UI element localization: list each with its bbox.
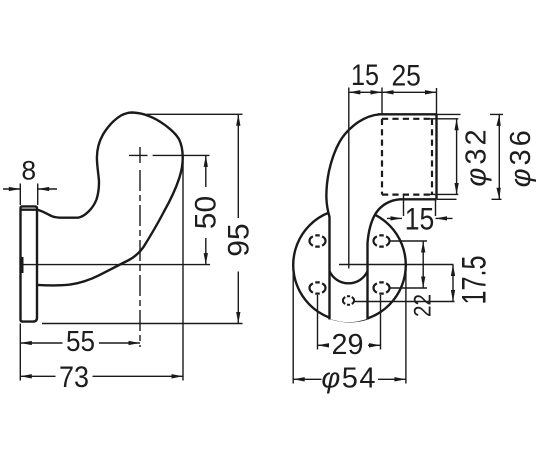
dim phi36 line + arrows xyxy=(498,114,500,199)
plate slot mark xyxy=(20,257,23,273)
dims 15 25 top: extension lines xyxy=(382,88,437,115)
wall plate xyxy=(21,206,38,321)
pipe right edge xyxy=(435,114,437,199)
screw hole bottom-center xyxy=(343,296,354,304)
dim phi36 extension lines xyxy=(437,114,504,199)
dim 95 bottom extension line xyxy=(42,323,243,325)
dim phi32 extension lines xyxy=(430,119,459,195)
hidden bore dashed box xyxy=(382,119,432,195)
dim 95 line + arrows xyxy=(237,114,239,323)
svg-text:φ36: φ36 xyxy=(505,127,537,187)
svg-text:29: 29 xyxy=(332,329,364,361)
flange circle xyxy=(293,209,406,322)
arm + pipe elbow (white filled to hide circle behind) xyxy=(326,114,436,322)
dim 29 line + arrows xyxy=(318,344,381,346)
dim 17.5 line + arrows xyxy=(452,265,454,302)
screw hole top-right xyxy=(373,235,389,246)
screw hole bottom-right xyxy=(373,282,389,293)
svg-text:22: 22 xyxy=(410,294,437,317)
center line down from cross xyxy=(139,170,141,347)
screw hole top-left xyxy=(309,235,325,246)
dim 22 reference lines xyxy=(390,241,428,288)
bracket outline: ledge, neck, ball, sweep xyxy=(37,113,183,286)
dim 73 line + arrows xyxy=(20,375,183,377)
dim 15 middle: extension line xyxy=(404,194,436,216)
pipe top edge xyxy=(378,113,437,115)
svg-text:73: 73 xyxy=(59,361,89,394)
dim 8 line+arrows xyxy=(3,188,57,190)
svg-text:55: 55 xyxy=(66,326,95,358)
screw hole bottom-left xyxy=(309,282,325,293)
dim 15 middle: arrows outside xyxy=(387,217,453,219)
dim 8 extension lines xyxy=(20,184,37,206)
svg-text:50: 50 xyxy=(189,196,222,229)
dim 95 top extension line xyxy=(147,113,243,115)
svg-text:15: 15 xyxy=(351,59,379,92)
dim 73 right extension line xyxy=(182,162,184,381)
dim 50 bottom reference line xyxy=(21,264,211,266)
plate inner top line xyxy=(21,208,38,210)
dim 55 line + arrows xyxy=(20,342,140,344)
center cross of pipe xyxy=(129,147,148,163)
svg-text:15: 15 xyxy=(405,201,435,237)
center vertical extension line xyxy=(348,88,350,269)
pipe bottom edge + elbow inner curve xyxy=(368,199,437,319)
svg-text:8: 8 xyxy=(21,156,36,186)
dim 55 extension lines xyxy=(19,324,21,381)
dim phi32 line + arrows xyxy=(456,119,458,195)
dim 50 top reference line xyxy=(153,154,210,156)
svg-text:φ54: φ54 xyxy=(321,363,377,395)
dims 15 25 top: line + arrows xyxy=(349,91,437,93)
dim 17.5 reference line xyxy=(354,301,455,303)
dim phi54 line + arrows xyxy=(293,378,406,380)
dim 50 line + arrows xyxy=(205,155,207,264)
svg-text:φ32: φ32 xyxy=(461,126,493,186)
dim 29 extension lines xyxy=(318,295,381,350)
dim 22 line + arrows xyxy=(422,241,424,288)
elbow outer curve xyxy=(326,114,380,319)
svg-text:95: 95 xyxy=(223,223,256,256)
dim phi54 extension lines xyxy=(293,267,406,384)
flange center cross horizontal xyxy=(339,264,454,266)
arm U bottom xyxy=(330,271,368,283)
svg-text:25: 25 xyxy=(391,59,421,92)
svg-text:17.5: 17.5 xyxy=(456,256,494,305)
